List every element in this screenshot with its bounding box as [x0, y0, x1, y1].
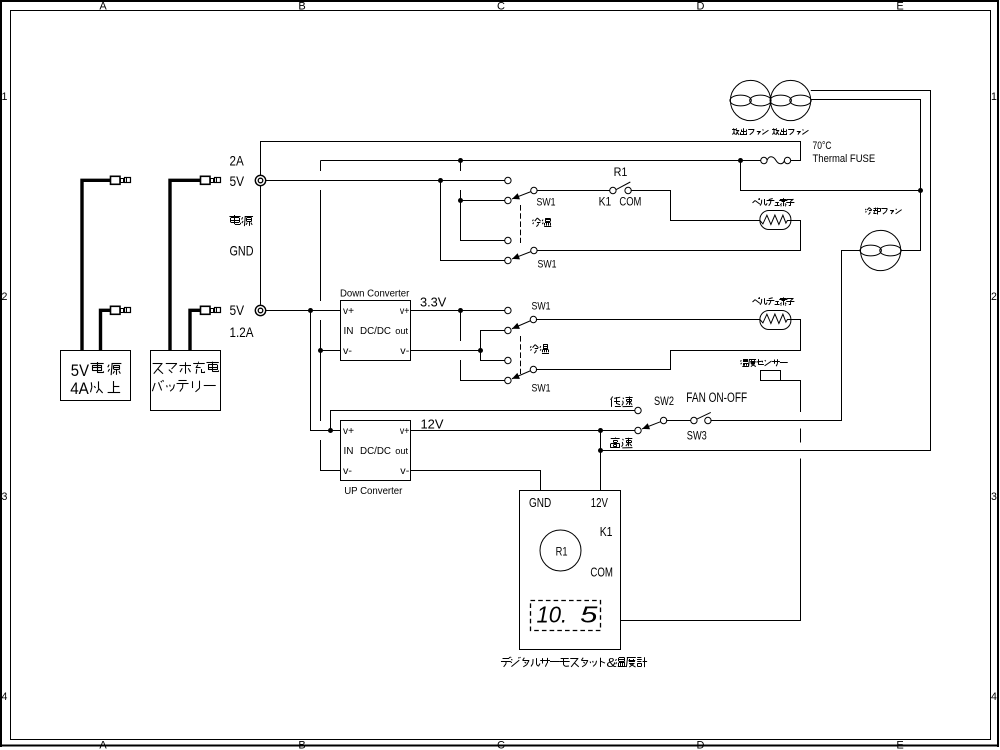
- svg-text:B: B: [298, 0, 305, 12]
- svg-text:K1: K1: [600, 524, 613, 539]
- svg-text:2A: 2A: [230, 153, 245, 169]
- svg-text:70°C: 70°C: [813, 140, 832, 152]
- svg-text:SW2: SW2: [654, 394, 674, 408]
- svg-text:out: out: [395, 445, 408, 456]
- svg-text:12V: 12V: [591, 495, 608, 510]
- svg-text:COM: COM: [619, 195, 641, 209]
- svg-text:12V: 12V: [421, 417, 444, 432]
- svg-text:UP Converter: UP Converter: [344, 486, 403, 497]
- svg-text:SW1: SW1: [532, 382, 551, 394]
- svg-text:COM: COM: [590, 564, 613, 579]
- svg-text:v+: v+: [400, 426, 410, 437]
- svg-text:3: 3: [991, 491, 997, 503]
- svg-text:v-: v-: [400, 466, 409, 477]
- svg-text:Down Converter: Down Converter: [340, 288, 410, 299]
- svg-text:v+: v+: [343, 426, 354, 437]
- svg-text:2: 2: [991, 291, 997, 303]
- svg-text:D: D: [697, 0, 705, 12]
- svg-text:C: C: [497, 0, 505, 12]
- svg-text:1: 1: [991, 91, 997, 103]
- svg-text:R1: R1: [614, 165, 628, 179]
- svg-text:IN: IN: [344, 446, 354, 457]
- svg-text:5: 5: [580, 602, 598, 628]
- svg-text:K1: K1: [599, 195, 612, 209]
- svg-text:Thermal FUSE: Thermal FUSE: [813, 153, 876, 165]
- svg-text:A: A: [99, 0, 107, 12]
- svg-text:3: 3: [1, 491, 7, 503]
- svg-text:v-: v-: [343, 346, 352, 357]
- svg-text:v+: v+: [343, 306, 354, 317]
- svg-text:4: 4: [991, 691, 997, 703]
- svg-text:B: B: [298, 739, 305, 750]
- svg-text:5V: 5V: [71, 362, 89, 380]
- svg-text:4A: 4A: [70, 380, 89, 398]
- svg-text:10.: 10.: [537, 602, 568, 628]
- svg-text:GND: GND: [230, 242, 254, 258]
- svg-text:5V: 5V: [230, 302, 245, 318]
- svg-text:E: E: [896, 0, 903, 12]
- svg-text:3.3V: 3.3V: [420, 294, 447, 309]
- svg-text:IN: IN: [344, 326, 354, 337]
- svg-text:DC/DC: DC/DC: [360, 446, 391, 457]
- svg-text:FAN ON-OFF: FAN ON-OFF: [686, 390, 747, 405]
- svg-text:4: 4: [1, 691, 7, 703]
- svg-text:D: D: [697, 739, 705, 750]
- svg-text:C: C: [497, 739, 505, 750]
- svg-text:5V: 5V: [230, 173, 245, 189]
- svg-text:SW3: SW3: [687, 428, 707, 442]
- svg-text:v+: v+: [400, 306, 410, 317]
- svg-text:v-: v-: [343, 466, 352, 477]
- svg-text:R1: R1: [556, 544, 568, 558]
- svg-text:GND: GND: [529, 495, 551, 510]
- svg-text:2: 2: [1, 291, 7, 303]
- svg-text:DC/DC: DC/DC: [360, 326, 391, 337]
- svg-text:SW1: SW1: [538, 259, 557, 271]
- svg-text:1.2A: 1.2A: [230, 324, 255, 340]
- svg-text:v-: v-: [400, 346, 409, 357]
- svg-text:SW1: SW1: [537, 197, 556, 209]
- svg-text:SW1: SW1: [532, 300, 551, 312]
- svg-text:1: 1: [1, 91, 7, 103]
- svg-text:&: &: [606, 655, 617, 670]
- svg-text:E: E: [896, 739, 903, 750]
- svg-text:out: out: [395, 325, 408, 336]
- svg-text:A: A: [99, 739, 107, 750]
